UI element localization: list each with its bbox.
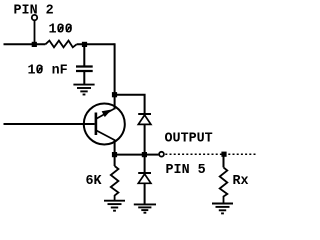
resistor Rx (220, 154, 228, 203)
wire collector node to diode column (115, 95, 145, 114)
wire top rail left (4, 43, 46, 45)
label Rx (233, 174, 249, 189)
resistor 6K (111, 156, 119, 201)
terminal OUTPUT (159, 152, 164, 157)
wire collector vertical (114, 95, 116, 110)
svg-text:10 nF: 10 nF (28, 64, 68, 79)
transistor Q1 (84, 104, 125, 145)
svg-text:PIN 2: PIN 2 (14, 4, 54, 19)
ground (capacitor) (73, 85, 94, 95)
wire emitter vertical (114, 140, 116, 155)
svg-text:OUTPUT: OUTPUT (165, 132, 213, 147)
label OUTPUT (165, 132, 213, 147)
wire diode node to output terminal (145, 154, 159, 156)
junction J4 emitter node (112, 152, 117, 157)
label 10 nF (28, 64, 68, 79)
capacitor 10 nF (76, 67, 93, 72)
wire top rail corner down to collector node (114, 43, 116, 94)
diode D2 (lower) (138, 156, 151, 183)
diode D1 (upper) (138, 114, 151, 124)
wire capacitor to ground (83, 72, 85, 84)
wire diode D2 to ground (144, 184, 146, 204)
ground (Rx) (212, 204, 233, 214)
resistor 100 (45, 41, 76, 48)
wire dashed output line (165, 153, 255, 155)
wire emitter node to diode node (115, 154, 145, 156)
junction J2 (82, 42, 87, 47)
junction J1 (32, 42, 37, 47)
label PIN 5 (166, 163, 206, 178)
ground (6K resistor) (104, 201, 125, 211)
label 6K (86, 174, 103, 189)
svg-text:PIN 5: PIN 5 (166, 163, 206, 178)
wire base lead (4, 123, 95, 125)
label 100 (49, 23, 73, 38)
label PIN 2 (14, 4, 54, 19)
junction J3 collector node (112, 92, 117, 97)
wire top rail middle (77, 43, 115, 45)
svg-text:Rx: Rx (233, 174, 249, 189)
wire diode D1 to output node (144, 125, 146, 155)
terminal PIN 2 (32, 15, 37, 20)
junction J6 Rx node (221, 152, 226, 157)
wire capacitor branch (83, 46, 85, 66)
wire PIN 2 stub (34, 21, 36, 44)
svg-text:100: 100 (49, 23, 73, 38)
junction J5 diode node (142, 152, 147, 157)
ground (diode D2) (134, 204, 156, 212)
svg-text:6K: 6K (86, 174, 103, 189)
